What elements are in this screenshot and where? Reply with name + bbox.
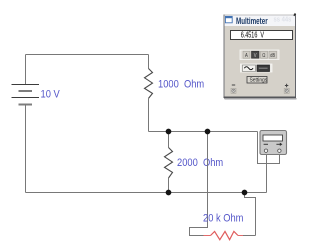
- svg-text:1000 Ohm: 1000 Ohm: [158, 79, 204, 91]
- button A: [243, 51, 250, 59]
- button Ohm: [261, 51, 268, 59]
- wire R2 bottom lead: [168, 178, 170, 193]
- button dB: [269, 51, 277, 58]
- node A junction dot: [166, 129, 172, 135]
- title bar corner mark: [293, 13, 296, 16]
- panel plus label: [285, 84, 288, 87]
- ac dc strip: [241, 64, 273, 72]
- wire multimeter minus terminal to bottom rail: [266, 155, 268, 193]
- multimeter panel window: [224, 15, 297, 101]
- svg-text:Settings: Settings: [250, 77, 268, 84]
- label 2000 Ohm: [177, 157, 223, 169]
- panel minus terminal: [231, 88, 236, 93]
- wire battery negative lead: [25, 105, 27, 193]
- node C junction dot: [166, 190, 172, 196]
- multimeter icon plus terminal: [278, 149, 281, 152]
- panel display box: [231, 31, 293, 40]
- wire top rail: [149, 131, 258, 133]
- title bar faded marks: [274, 16, 292, 24]
- wire R2 top lead: [168, 132, 170, 148]
- wire jog left to R3: [190, 228, 208, 236]
- svg-text:Multimeter: Multimeter: [236, 16, 268, 27]
- title text Multimeter: [236, 16, 268, 27]
- multimeter icon display: [263, 135, 283, 141]
- wire R3 left red lead: [204, 235, 211, 237]
- wire R3 up to node D: [245, 193, 256, 236]
- label 1000 Ohm: [158, 79, 204, 91]
- label 20 k Ohm: [203, 213, 243, 225]
- resistor R3 20 k Ohm: [211, 231, 239, 239]
- battery V1: [12, 85, 40, 105]
- panel title bar: [225, 16, 296, 27]
- wire R3 right red lead: [238, 235, 243, 237]
- node D junction dot: [242, 190, 248, 196]
- wire bottom rail: [26, 192, 267, 194]
- svg-text:10 V: 10 V: [41, 89, 60, 101]
- node B junction dot: [205, 129, 211, 135]
- wire R1 top lead: [148, 55, 150, 69]
- wire R3 right lead: [243, 235, 256, 237]
- button V pressed: [252, 51, 260, 59]
- title bar icon: [225, 16, 232, 22]
- multimeter icon minus label: [264, 143, 268, 145]
- svg-text:20 k Ohm: 20 k Ohm: [203, 213, 243, 225]
- resistor R1 1000 Ohm: [145, 69, 153, 99]
- wire top from battery to R1: [26, 54, 149, 56]
- button sine AC: [243, 65, 256, 72]
- button DC pressed: [257, 65, 270, 72]
- svg-text:Ω: Ω: [262, 52, 265, 59]
- mode buttons strip: [240, 50, 279, 60]
- panel display text: [241, 32, 265, 40]
- wire battery positive lead: [25, 55, 27, 85]
- panel minus label: [232, 84, 235, 86]
- multimeter icon XMM1 body: [260, 131, 287, 155]
- button Settings: [247, 77, 267, 84]
- multimeter icon plus label: [276, 143, 282, 146]
- svg-text:2000 Ohm: 2000 Ohm: [177, 157, 223, 169]
- wire from node B down to R3: [207, 132, 209, 229]
- svg-text:6.4516 V: 6.4516 V: [241, 32, 265, 40]
- svg-text:dB: dB: [270, 52, 275, 58]
- multimeter icon minus terminal: [264, 149, 267, 152]
- label 10 V: [41, 89, 60, 101]
- wire R1 bottom lead: [148, 98, 150, 131]
- resistor R2 2000 Ohm: [165, 148, 173, 179]
- svg-text:ss 44s: ss 44s: [274, 16, 292, 24]
- wire top rail to multimeter plus terminal: [258, 132, 280, 164]
- panel plus terminal: [284, 88, 289, 93]
